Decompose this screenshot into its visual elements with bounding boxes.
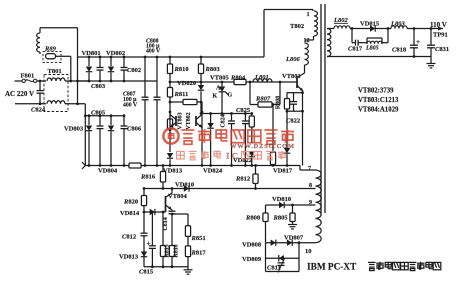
svg-text:R817: R817 <box>191 250 207 257</box>
resistor R808 emitter <box>287 92 303 94</box>
svg-text:VD815: VD815 <box>360 21 380 28</box>
diode VD807 <box>287 240 292 246</box>
svg-text:VD824: VD824 <box>203 168 223 175</box>
resistor R812 <box>255 166 257 175</box>
watermark main text <box>181 130 194 144</box>
wire to 110V output <box>407 28 443 30</box>
svg-text:R820: R820 <box>123 199 138 206</box>
wire emitter to R851 <box>172 213 188 215</box>
svg-text:C805: C805 <box>91 110 106 117</box>
capacitor C825 <box>244 114 246 122</box>
resistor on rail <box>129 163 141 168</box>
capacitor C818 <box>413 29 415 46</box>
svg-text:F801: F801 <box>21 73 35 80</box>
svg-text:C803: C803 <box>91 83 106 90</box>
degaussing coil <box>37 33 40 52</box>
svg-text:C831: C831 <box>435 46 449 53</box>
wire drive row <box>170 81 297 83</box>
damper loop C817 L805 <box>351 29 353 43</box>
svg-text:VT805: VT805 <box>210 75 230 82</box>
svg-text:7: 7 <box>308 166 311 172</box>
transformer T802 secondary <box>316 170 322 243</box>
svg-text:C825: C825 <box>236 107 251 114</box>
svg-text:10: 10 <box>305 248 312 255</box>
wire degauss right leg <box>77 28 79 104</box>
svg-text:R808: R808 <box>245 215 261 222</box>
svg-text:R805: R805 <box>273 215 289 222</box>
svg-text:R812: R812 <box>235 176 250 183</box>
svg-text:T801: T801 <box>48 68 62 75</box>
wire pin8 row <box>144 188 316 190</box>
svg-text:VT804:A1029: VT804:A1029 <box>358 107 399 114</box>
svg-text:C818: C818 <box>392 47 407 54</box>
wire pin9 row <box>266 204 316 206</box>
diode VD822 <box>249 152 255 157</box>
svg-text:VT803:C1213: VT803:C1213 <box>358 97 399 104</box>
capacitor C808 <box>156 57 158 97</box>
svg-text:VD817: VD817 <box>273 168 293 175</box>
wire AC top rail <box>78 80 157 82</box>
svg-text:A: A <box>216 86 221 92</box>
svg-text:C814: C814 <box>163 217 169 230</box>
capacitor C807 <box>144 57 146 97</box>
svg-text:400 V: 400 V <box>123 103 138 109</box>
capacitor C803 <box>99 57 101 68</box>
inductor L802 <box>327 28 334 30</box>
resistor R810 <box>169 57 171 64</box>
resistor R807 parallel path <box>249 82 251 105</box>
svg-text:R803: R803 <box>205 66 221 73</box>
svg-text:R851: R851 <box>191 235 206 242</box>
wire R89 to AC line <box>56 55 71 57</box>
diode VD820 <box>200 74 202 86</box>
svg-text:C817: C817 <box>348 46 363 53</box>
svg-text:R89: R89 <box>44 46 57 53</box>
resistor R816 <box>162 166 164 172</box>
transistor VT802 <box>195 116 197 126</box>
svg-text:L803: L803 <box>390 21 405 28</box>
diode VD802 <box>110 57 112 66</box>
wire bottom return <box>144 266 188 268</box>
wire output top <box>350 28 370 30</box>
fuse F801 <box>22 79 25 82</box>
svg-text:1: 1 <box>307 12 310 18</box>
transformer T802 core <box>320 4 322 213</box>
diode VD817 <box>286 111 288 148</box>
rectifier box C811 <box>265 243 267 272</box>
AC line wire bottom <box>15 103 46 105</box>
svg-text:L805: L805 <box>365 46 379 52</box>
svg-text:G: G <box>228 93 233 99</box>
diode VD810 left <box>184 185 189 191</box>
svg-text:VD802: VD802 <box>106 50 125 57</box>
diode VD815 <box>370 25 375 31</box>
diode VD803 <box>88 116 90 125</box>
svg-text:VD801: VD801 <box>82 50 101 57</box>
diode VD808 <box>271 240 276 246</box>
resistor R818 <box>169 246 174 257</box>
resistor R851 <box>187 214 189 226</box>
svg-text:VD813: VD813 <box>119 254 139 261</box>
svg-text:VD810: VD810 <box>272 196 291 203</box>
resistor R817 <box>187 236 189 246</box>
resistor R806 column <box>272 105 274 153</box>
svg-text:C815: C815 <box>139 269 154 276</box>
svg-text:VT803: VT803 <box>178 112 184 129</box>
transformer T802 output winding <box>327 29 331 57</box>
svg-text:VD804: VD804 <box>98 168 118 175</box>
svg-text:VD807: VD807 <box>284 235 304 242</box>
svg-text:C824: C824 <box>221 114 227 127</box>
svg-text:AC 220 V: AC 220 V <box>5 90 34 98</box>
resistor R805 <box>292 205 294 213</box>
resistor R804 <box>234 79 246 84</box>
capacitor C824 <box>39 81 41 91</box>
capacitor C806 <box>123 116 125 126</box>
diode VD812 <box>210 114 212 124</box>
diode VD804 <box>110 116 112 125</box>
ground bottom <box>187 267 189 270</box>
svg-text:WWW.DZSC.COM: WWW.DZSC.COM <box>230 143 294 150</box>
svg-text:VT802: VT802 <box>186 112 192 129</box>
svg-text:R818: R818 <box>174 244 180 257</box>
capacitor C823 <box>231 114 233 122</box>
capacitor C831 <box>430 29 432 46</box>
diode VD809 <box>279 255 284 261</box>
transistor VT803 <box>169 112 171 130</box>
AC line wire top <box>15 80 23 82</box>
watermark logo <box>163 128 178 143</box>
svg-text:C812: C812 <box>122 234 136 241</box>
diode VD814 base <box>144 211 166 213</box>
svg-text:R811: R811 <box>174 91 189 98</box>
diode VD813 upper <box>167 153 173 158</box>
capacitor C805 <box>99 116 101 126</box>
capacitor C822 <box>293 93 295 102</box>
capacitor C802 <box>123 57 125 68</box>
svg-text:+: + <box>416 38 420 46</box>
svg-text:110 V: 110 V <box>430 21 447 29</box>
wire B+ top rail <box>78 56 265 58</box>
svg-text:R804: R804 <box>230 75 246 82</box>
diode VD810 right <box>279 202 284 208</box>
resistor R803 <box>200 57 202 64</box>
ground output <box>430 57 432 64</box>
diode VD801 <box>88 57 90 66</box>
svg-text:VD803: VD803 <box>64 126 84 133</box>
diode VD813 lower <box>141 252 147 257</box>
svg-text:L802: L802 <box>333 17 348 24</box>
wire lower AC sub-rail <box>84 104 86 166</box>
svg-text:C811: C811 <box>267 265 281 272</box>
svg-text:R816: R816 <box>140 174 156 181</box>
ground R805 <box>292 222 294 225</box>
svg-text:VD810: VD810 <box>175 182 194 189</box>
svg-text:I C: I C <box>226 151 238 161</box>
svg-text:VD808: VD808 <box>242 242 262 249</box>
capacitor C812 <box>143 212 145 233</box>
svg-text:T802: T802 <box>290 23 304 30</box>
resistor R811 <box>169 74 171 88</box>
svg-text:VT802:3739: VT802:3739 <box>358 88 394 95</box>
capacitor C811 <box>278 262 285 264</box>
svg-text:IBM PC-XT: IBM PC-XT <box>307 263 357 273</box>
resistor R813 <box>169 97 171 119</box>
svg-text:C802: C802 <box>127 67 141 74</box>
svg-text:VD820: VD820 <box>177 80 196 87</box>
svg-text:L801: L801 <box>254 74 269 81</box>
svg-text:R807: R807 <box>255 96 271 103</box>
wire mid row <box>201 113 252 115</box>
svg-text:R810: R810 <box>174 66 189 73</box>
resistor cross-coupling <box>170 101 183 103</box>
wire output bottom <box>327 56 431 58</box>
capacitor C814 emitter <box>171 210 173 212</box>
wire pin10 row <box>266 242 316 244</box>
svg-text:TP91: TP91 <box>433 32 448 39</box>
resistor R820 <box>143 189 145 196</box>
svg-text:+: + <box>147 240 151 248</box>
svg-text:L806: L806 <box>285 56 300 63</box>
transformer T801 <box>44 75 68 112</box>
svg-text:400 V: 400 V <box>146 49 161 55</box>
inductor L801 <box>253 79 272 82</box>
svg-text:VD809: VD809 <box>242 256 262 263</box>
svg-text:K: K <box>213 94 218 100</box>
wire negative bottom rail <box>85 165 300 167</box>
resistor R808 lower <box>265 205 267 213</box>
watermark slogan <box>177 151 185 159</box>
resistor R825 <box>251 114 253 117</box>
svg-text:C806: C806 <box>127 126 142 133</box>
wire B+ riser to T802 <box>263 10 265 58</box>
capacitor C815 <box>151 212 153 246</box>
svg-text:R808: R808 <box>276 96 282 109</box>
wire pin7 <box>300 169 316 171</box>
svg-text:C822: C822 <box>286 118 300 125</box>
degaussing coil wire <box>40 27 78 29</box>
inductor L806 <box>305 43 309 65</box>
resistor R815 <box>162 212 164 246</box>
svg-text:VD814: VD814 <box>120 210 140 217</box>
thermistor R89 <box>43 51 61 62</box>
inductor L803 <box>391 26 407 29</box>
